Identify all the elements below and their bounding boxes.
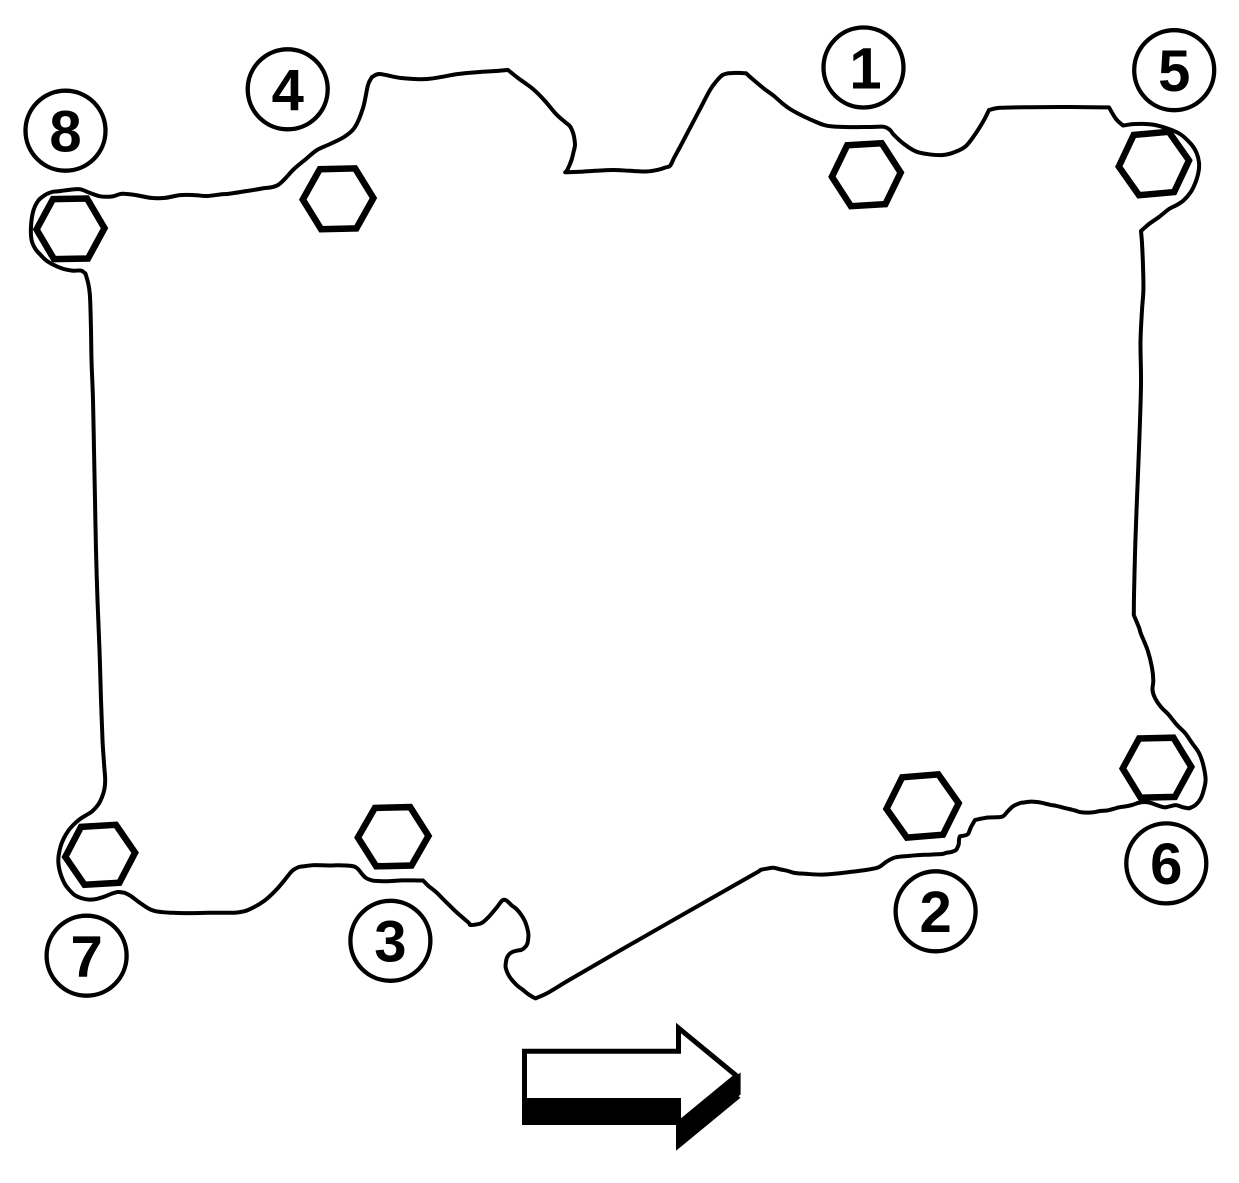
svg-text:5: 5 xyxy=(1158,39,1190,104)
svg-text:8: 8 xyxy=(49,100,81,165)
svg-text:7: 7 xyxy=(70,925,102,990)
svg-text:6: 6 xyxy=(1150,832,1182,897)
svg-text:1: 1 xyxy=(849,36,881,101)
svg-text:4: 4 xyxy=(272,58,304,123)
svg-text:2: 2 xyxy=(919,880,951,945)
svg-text:3: 3 xyxy=(374,910,406,975)
